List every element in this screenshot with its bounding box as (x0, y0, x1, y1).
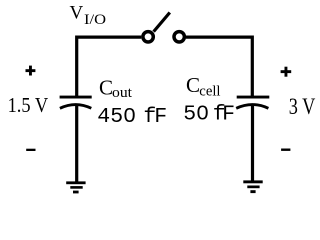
value label 50 fF zero styling (201, 110, 205, 114)
svg-text:V: V (70, 3, 84, 24)
value label 450 fF zero styling (128, 113, 132, 117)
wire top-right (switch to C_cell) (186, 37, 253, 96)
svg-text:out: out (112, 85, 133, 101)
svg-text:C: C (186, 73, 200, 97)
minus sign right (281, 149, 290, 151)
minus sign left (26, 149, 35, 151)
plus sign left (26, 66, 36, 76)
switch S1 right terminal (174, 32, 184, 42)
capacitor C_cell curved plate (236, 105, 268, 109)
node V_I/O label (70, 3, 107, 28)
svg-text:C: C (99, 76, 113, 100)
capacitor C_cell top plate (237, 96, 270, 99)
wire top-left (V_I/O node to switch) (77, 37, 142, 96)
svg-text:450: 450 (97, 105, 136, 129)
svg-text:3 V: 3 V (289, 94, 316, 119)
svg-text:50: 50 (183, 103, 209, 127)
svg-text:I/O: I/O (84, 12, 106, 28)
svg-text:cell: cell (199, 84, 220, 100)
wire C_out to ground (75, 106, 78, 183)
svg-text:fF: fF (143, 105, 166, 129)
svg-text:fF: fF (213, 103, 234, 127)
ground (left) (66, 181, 85, 193)
svg-text:1.5 V: 1.5 V (8, 93, 49, 117)
capacitor C_out curved plate (60, 105, 91, 109)
ground (right) (243, 180, 262, 193)
capacitor C_cell label (186, 73, 221, 100)
capacitor C_out label (99, 76, 133, 102)
wire C_cell to ground (251, 106, 254, 183)
switch S1 left terminal (143, 32, 153, 42)
capacitor C_out top plate (60, 96, 92, 99)
switch S1 lever (154, 13, 170, 32)
value label 450 fF (97, 105, 166, 129)
plus sign right (281, 67, 292, 77)
value label 50 fF (183, 103, 234, 127)
